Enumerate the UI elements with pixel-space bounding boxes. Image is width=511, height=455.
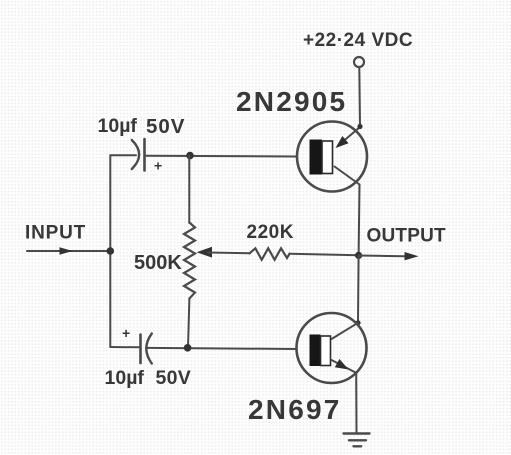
output arrowhead (405, 252, 419, 260)
wire pot bottom lead (188, 299, 189, 348)
wire left vertical (input rail) (109, 156, 111, 348)
svg-text:220K: 220K (247, 222, 294, 243)
capacitor C2 straight plate (139, 335, 142, 364)
node top junction (186, 152, 194, 160)
wire output node to Q2 collector (357, 256, 360, 323)
ground symbol (344, 434, 370, 447)
capacitor C1 curved plate (132, 140, 139, 169)
svg-text:+: + (122, 325, 130, 341)
wire supply terminal to Q1 emitter (358, 68, 361, 127)
wire output lead (359, 255, 405, 258)
wire Q1 collector to output node (358, 185, 361, 256)
node Q2 collector / output rail junction (355, 320, 360, 325)
svg-text:10µf: 10µf (98, 115, 138, 137)
wire top-left to capacitor C1 (110, 154, 136, 156)
potentiometer R1 500K zigzag (184, 223, 195, 299)
wire input lead (27, 250, 110, 252)
svg-text:10µf: 10µf (105, 367, 145, 389)
svg-text:50V: 50V (156, 367, 192, 389)
svg-text:+: + (154, 158, 162, 174)
resistor R2 220K zigzag (250, 248, 290, 259)
svg-text:OUTPUT: OUTPUT (367, 226, 447, 247)
wire R2 to output node (290, 254, 359, 256)
transistor Q1 2N2905 (297, 122, 367, 192)
svg-text:2N2905: 2N2905 (236, 86, 347, 117)
wire C2 to Q2 base (146, 348, 297, 349)
wire C1 to Q1 base (146, 155, 298, 158)
node input junction (107, 247, 115, 255)
transistor Q2 2N697 (297, 313, 367, 383)
input arrowhead (60, 247, 73, 255)
wire bottom-left to capacitor C2 (110, 346, 139, 348)
wire Q2 emitter to ground (355, 373, 357, 433)
node output junction (355, 252, 362, 259)
wiper arrowhead of R1 (197, 247, 213, 258)
node Q1 emitter / supply junction (357, 124, 362, 129)
capacitor C2 curved plate (146, 334, 152, 364)
wire wiper to R2 (208, 252, 250, 255)
svg-text:50V: 50V (146, 115, 185, 138)
svg-text:2N697: 2N697 (248, 394, 342, 425)
svg-text:INPUT: INPUT (25, 223, 86, 244)
capacitor C1 straight plate (143, 139, 146, 171)
svg-text:500K: 500K (134, 252, 182, 274)
power terminal circle (354, 57, 364, 67)
node bottom junction (184, 344, 192, 352)
svg-text:+22·24 VDC: +22·24 VDC (303, 30, 413, 51)
wire pot top lead (188, 156, 190, 223)
